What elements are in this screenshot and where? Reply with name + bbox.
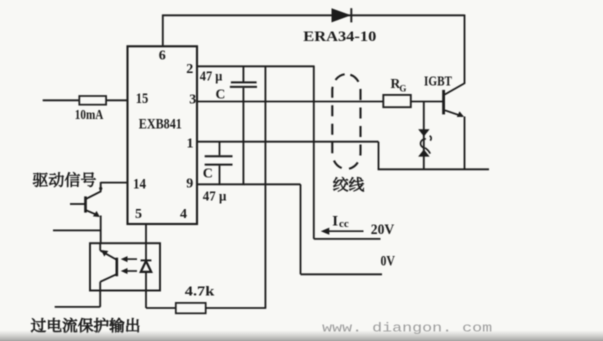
svg-text:14: 14: [133, 177, 146, 193]
svg-text:0V: 0V: [381, 253, 396, 269]
svg-text:47 μ: 47 μ: [203, 190, 227, 205]
svg-text:47 μ: 47 μ: [200, 68, 223, 83]
svg-text:9: 9: [186, 176, 193, 191]
svg-text:20V: 20V: [371, 222, 395, 238]
svg-text:2: 2: [186, 62, 193, 77]
svg-text:15: 15: [136, 91, 149, 107]
svg-text:C: C: [203, 167, 213, 182]
svg-text:3: 3: [189, 92, 196, 107]
svg-text:EXB841: EXB841: [139, 117, 182, 133]
svg-text:1: 1: [187, 136, 194, 151]
svg-text:6: 6: [159, 48, 166, 63]
svg-text:4: 4: [180, 207, 187, 222]
svg-text:cc: cc: [339, 218, 349, 230]
svg-text:ERA34-10: ERA34-10: [303, 29, 376, 45]
svg-text:4.7k: 4.7k: [185, 284, 215, 299]
svg-text:5: 5: [135, 207, 142, 222]
svg-text:IGBT: IGBT: [424, 73, 452, 88]
svg-text:I: I: [332, 214, 338, 230]
svg-text:G: G: [399, 84, 406, 94]
svg-text:C: C: [216, 86, 226, 101]
svg-text:10mA: 10mA: [75, 107, 104, 122]
